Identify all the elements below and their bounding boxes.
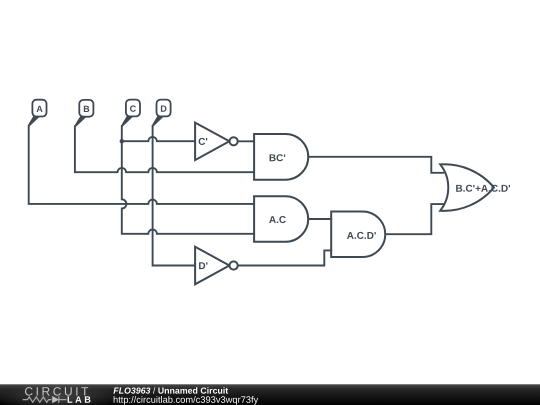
wire: AND gate A.C.D' output to OR gate bottom input: [385, 204, 444, 234]
label BC': [270, 154, 286, 161]
wire C: flag C down (east hop over wire A) then right to AND gate A.C bottom input, hop over wire D: [122, 125, 254, 234]
wire: AND gate A.C output to AND gate A.C.D' top input: [308, 218, 331, 220]
footer circuit id and title: FLO3963 / Unnamed Circuit: [113, 387, 228, 393]
label B.C'+A.C.D' (output expression): [456, 185, 510, 192]
OR gate: [440, 164, 494, 211]
footer url: [114, 396, 259, 405]
footer logo glow: [0, 383, 119, 405]
wire D: flag D down and right to inverter D' input: [153, 125, 196, 266]
input flag C: [122, 100, 140, 127]
input flag A: [28, 100, 46, 127]
logo diode symbol: [52, 396, 66, 403]
logo wordmark CIRCUIT: [25, 387, 88, 396]
wire B: flag B down and right to AND gate BC' bottom input, hops over wires C and D: [75, 125, 254, 172]
label D': [199, 262, 207, 269]
input flag D: [152, 100, 170, 127]
label A.C: [269, 216, 286, 223]
logo resistor symbol: [23, 397, 52, 402]
AND gate A.C.D': [331, 212, 385, 258]
wire: inverter C' output to AND gate BC' top input: [238, 140, 254, 142]
wire: inverter D' output jog up to AND gate A.C.D' bottom input: [238, 250, 332, 265]
label A.C.D': [347, 232, 376, 239]
footer bar: [0, 384, 540, 405]
inverter U2 (D' NOT gate): [195, 247, 238, 285]
inverter U1 (C' NOT gate): [195, 123, 238, 161]
input flag B: [75, 100, 93, 127]
AND gate A.C: [254, 196, 308, 242]
label C': [199, 138, 208, 145]
junction on wire C: [120, 139, 124, 143]
wire C branch: junction to inverter C' input, hop over wire D: [122, 137, 195, 141]
AND gate BC': [254, 134, 308, 180]
wire: AND gate BC' output to OR gate top input: [308, 157, 444, 173]
logo wordmark LAB: [68, 396, 91, 402]
wire A: flag A down and right to AND gate A.C top input, hop over wire D: [29, 125, 254, 204]
